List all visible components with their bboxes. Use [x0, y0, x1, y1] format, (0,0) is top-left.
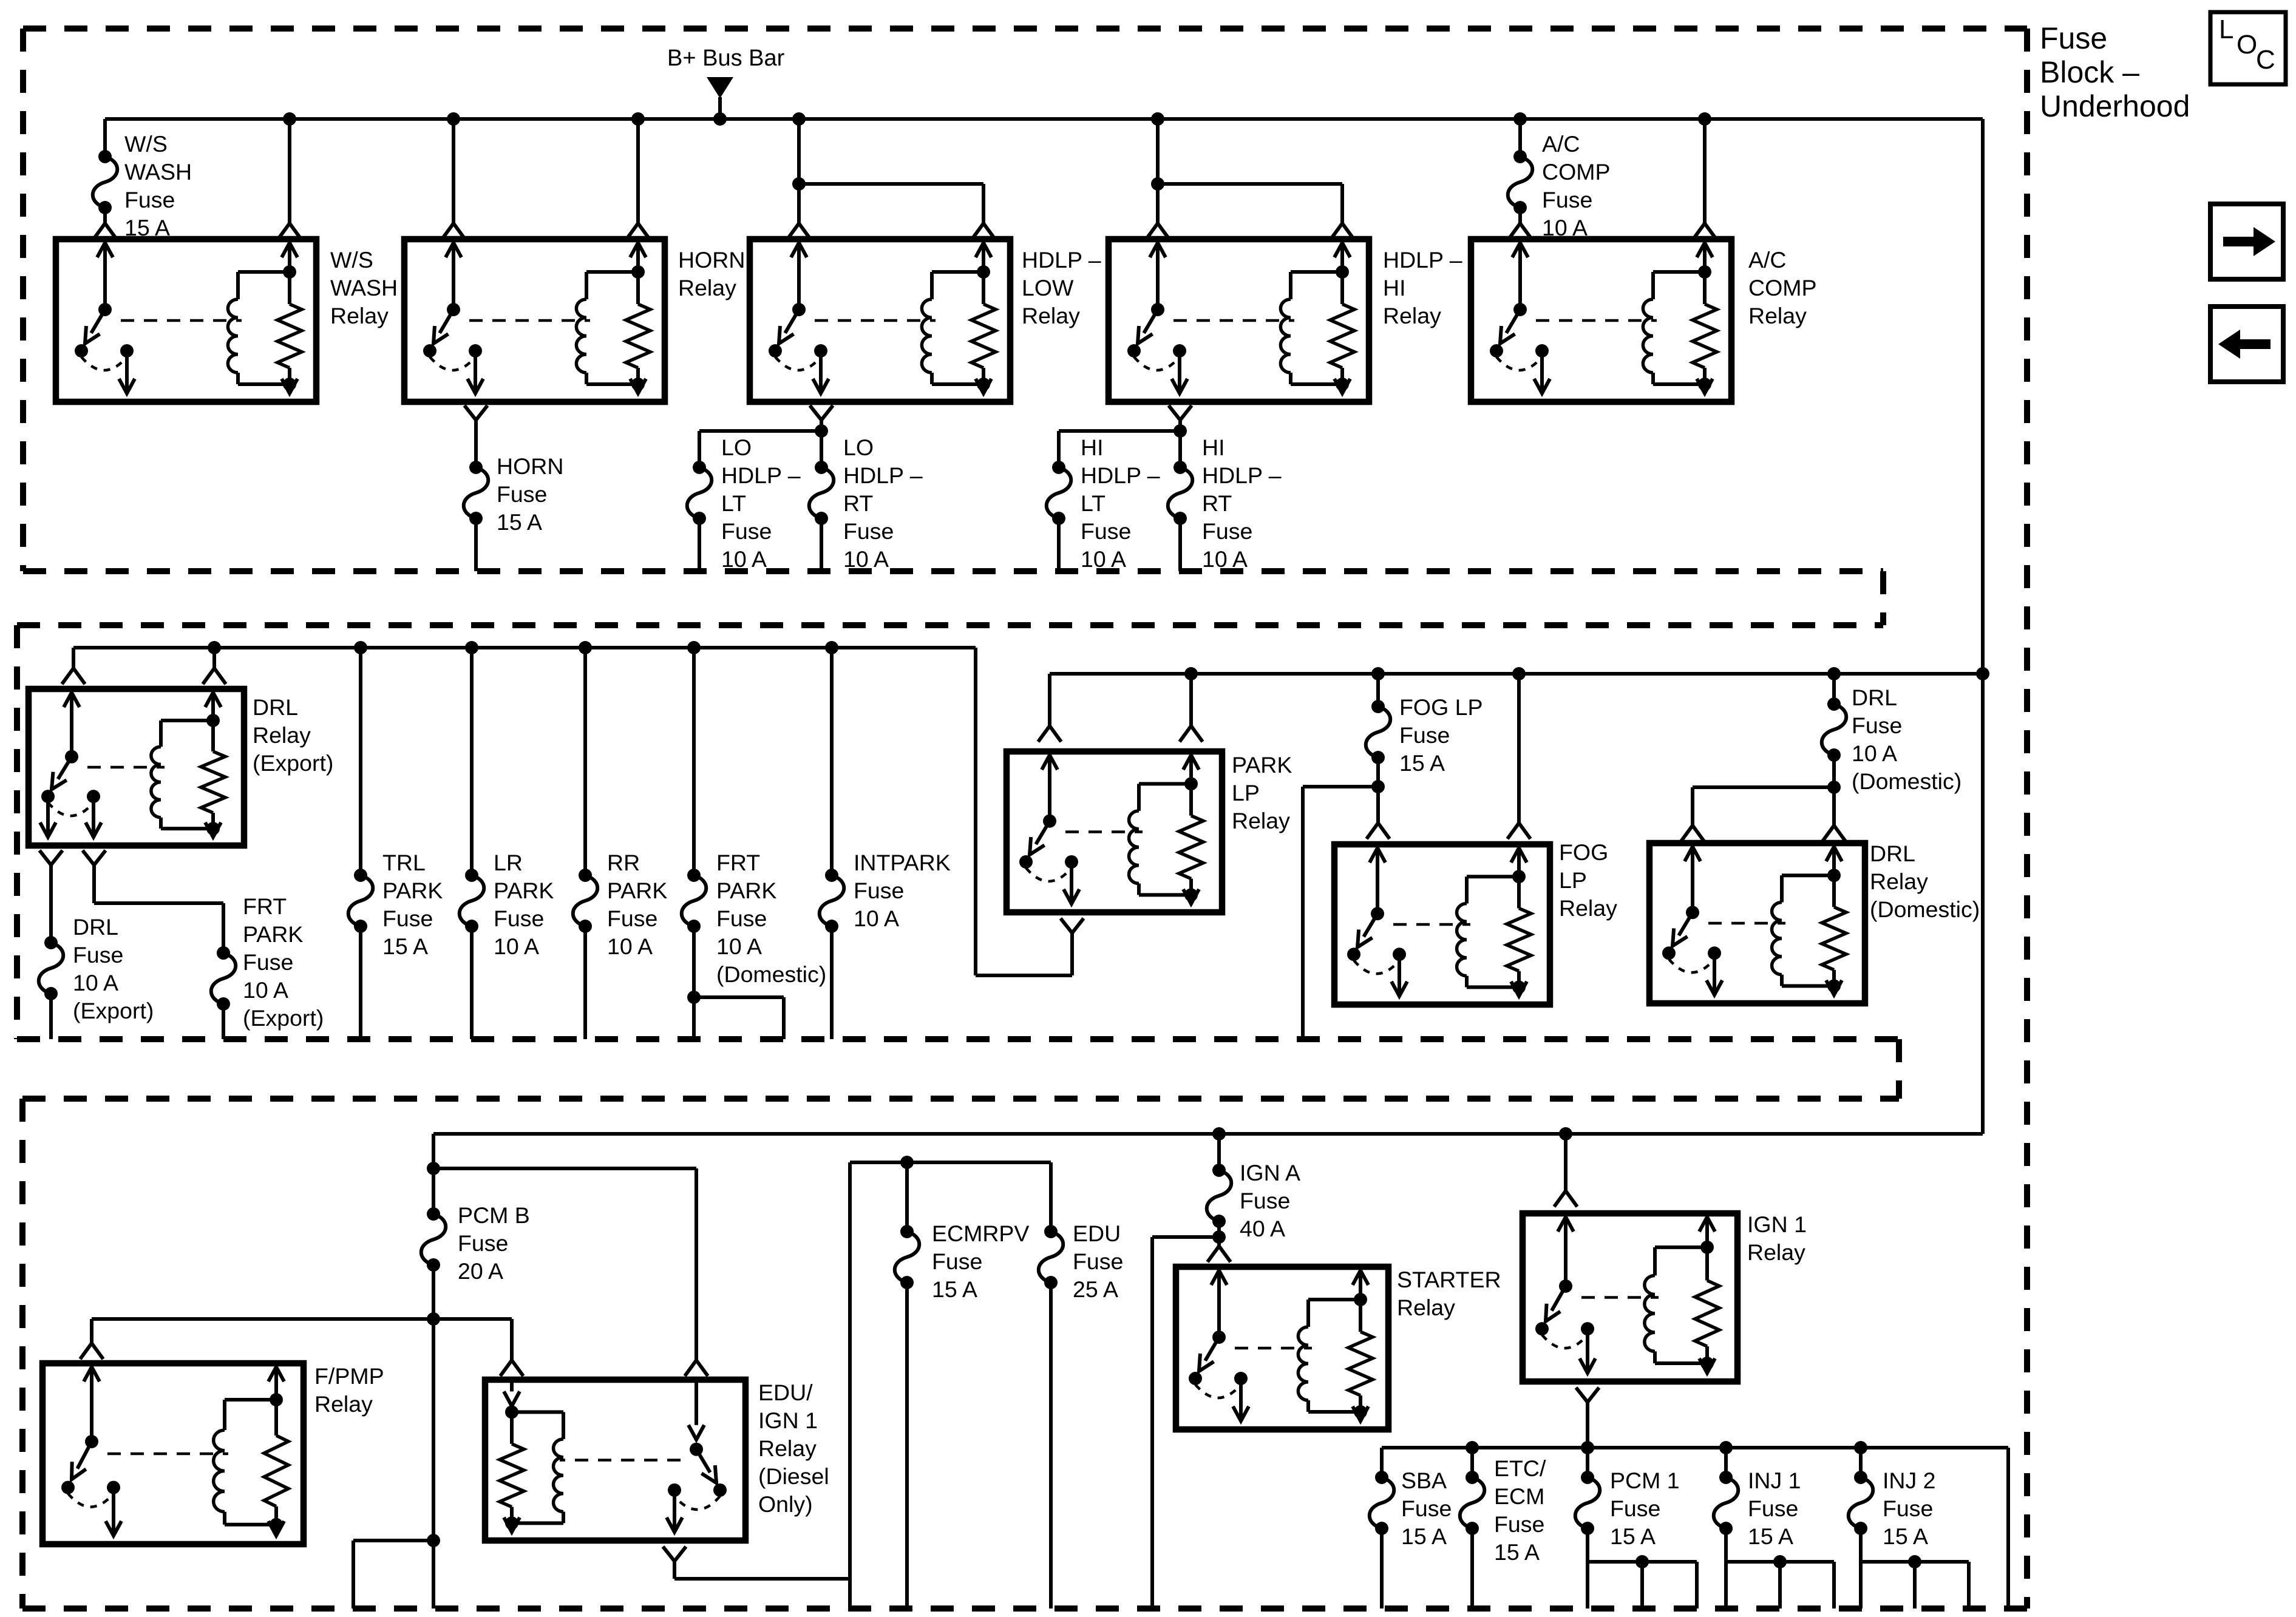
- svg-text:PARK: PARK: [607, 878, 667, 903]
- fuse HI HDLP - LT Fuse 10 A: [1047, 461, 1072, 571]
- junction dots on ignition bus: [1466, 1441, 1867, 1454]
- svg-text:DRL: DRL: [1870, 841, 1915, 866]
- wire EDU/IGN1 relay output to EDU bus: [663, 1547, 850, 1579]
- svg-text:L: L: [2219, 15, 2233, 44]
- wire PCM B continuation to bottom border: [353, 1319, 440, 1609]
- fuse ECMRPV Fuse 15 A: [895, 1162, 920, 1609]
- relay K8 FOG LP Relay: [1334, 844, 1550, 1005]
- svg-text:IGN 1: IGN 1: [758, 1408, 818, 1433]
- svg-text:10 A: 10 A: [1202, 546, 1248, 572]
- svg-text:B+ Bus Bar: B+ Bus Bar: [667, 46, 785, 71]
- wire ignition bus: [1382, 1448, 2008, 1609]
- fuse block dashed border - left edge box2: [14, 625, 20, 1039]
- relay K1 W/S WASH Relay: [56, 239, 316, 402]
- svg-text:Relay: Relay: [678, 275, 736, 300]
- B+ bus bar terminal triangle: [707, 77, 733, 98]
- wire RR PARK fuse drop: [583, 648, 587, 875]
- svg-text:15 A: 15 A: [382, 934, 428, 959]
- wire PARK LP relay output to park bus: [1061, 918, 1084, 975]
- svg-text:PARK: PARK: [1232, 752, 1292, 778]
- fuse block dashed border - left edge box1: [20, 29, 26, 571]
- svg-text:F/PMP: F/PMP: [314, 1363, 384, 1389]
- dashed separator - box1 bottom: [23, 568, 1883, 574]
- svg-text:HI: HI: [1081, 435, 1104, 460]
- wire HORN relay right pin from bus: [627, 119, 650, 239]
- fuse FRT PARK Fuse 10 A (Export): [211, 946, 236, 1039]
- fuse DRL Fuse 10 A (Export): [39, 936, 64, 1039]
- svg-text:LP: LP: [1559, 867, 1587, 893]
- wire EDU vertical riser: [850, 1156, 1051, 1609]
- svg-text:Relay: Relay: [253, 722, 311, 748]
- svg-text:Fuse: Fuse: [932, 1249, 982, 1274]
- svg-text:PARK: PARK: [494, 878, 554, 903]
- svg-text:Fuse: Fuse: [854, 878, 904, 903]
- fuse INJ 2 Fuse 15 A: [1849, 1448, 1969, 1609]
- wire HDLP-LOW relay output split to LT/RT fuses: [699, 405, 833, 467]
- svg-text:40 A: 40 A: [1240, 1216, 1285, 1241]
- svg-text:EDU: EDU: [1073, 1221, 1121, 1246]
- fuse LO HDLP - LT Fuse 10 A: [687, 461, 712, 571]
- fuse block dashed border - top edge: [23, 25, 2027, 32]
- wire B+ bus horizontal: [105, 117, 1983, 121]
- relay K3 HDLP - LOW Relay: [750, 239, 1010, 402]
- svg-text:Relay: Relay: [1397, 1295, 1455, 1320]
- svg-text:10 A: 10 A: [854, 906, 899, 931]
- wire W/S WASH relay right pin from bus: [278, 119, 301, 239]
- relay K7 PARK LP Relay: [1007, 751, 1222, 912]
- fuse LO HDLP - RT Fuse 10 A: [809, 461, 834, 571]
- svg-text:PCM 1: PCM 1: [1610, 1468, 1680, 1493]
- svg-text:Fuse: Fuse: [494, 906, 544, 931]
- svg-text:Fuse: Fuse: [843, 518, 894, 544]
- wire IGN A output jog to bottom border: [1152, 1237, 1219, 1609]
- svg-text:WASH: WASH: [124, 159, 192, 185]
- wire lamp bus (second compartment right bus): [1038, 674, 1983, 742]
- fuse FOG LP Fuse 15 A: [1366, 674, 1391, 793]
- svg-text:PARK: PARK: [382, 878, 443, 903]
- svg-text:10 A: 10 A: [243, 977, 288, 1003]
- fuse TRL PARK Fuse 15 A: [348, 869, 373, 1039]
- wire PARK LP relay right pin from lamp bus: [1180, 674, 1203, 742]
- svg-text:DRL: DRL: [253, 694, 298, 720]
- wire HORN relay output to HORN fuse: [464, 405, 487, 467]
- relay K12 STARTER Relay: [1176, 1267, 1388, 1429]
- svg-text:(Diesel: (Diesel: [758, 1463, 829, 1489]
- svg-text:PARK: PARK: [716, 878, 776, 903]
- svg-text:15 A: 15 A: [1494, 1539, 1540, 1565]
- svg-text:Fuse: Fuse: [1202, 518, 1252, 544]
- svg-text:(Domestic): (Domestic): [716, 961, 826, 987]
- svg-text:HDLP –: HDLP –: [1022, 247, 1101, 273]
- svg-text:HDLP –: HDLP –: [1202, 463, 1282, 488]
- svg-text:A/C: A/C: [1542, 131, 1580, 157]
- svg-text:DRL: DRL: [73, 914, 118, 940]
- svg-text:INJ 2: INJ 2: [1883, 1468, 1936, 1493]
- fuse FRT PARK Fuse 10 A (Domestic): [682, 869, 784, 1039]
- svg-text:10 A: 10 A: [494, 934, 539, 959]
- svg-text:Block –: Block –: [2040, 55, 2139, 89]
- svg-text:O: O: [2237, 30, 2257, 59]
- dashed separator - box3 top: [22, 1096, 1899, 1102]
- wire DRL Relay Export right output to FRT PARK fuse (Export): [83, 850, 223, 953]
- svg-text:HDLP –: HDLP –: [1383, 247, 1462, 273]
- svg-text:Relay: Relay: [1870, 869, 1928, 894]
- svg-text:EDU/: EDU/: [758, 1380, 813, 1405]
- svg-text:Fuse: Fuse: [1240, 1188, 1290, 1213]
- svg-text:10 A: 10 A: [73, 970, 118, 995]
- svg-text:PCM B: PCM B: [458, 1202, 530, 1228]
- dashed connector box1/box2 right: [1880, 571, 1886, 625]
- svg-text:Relay: Relay: [1559, 895, 1617, 921]
- relay K6 DRL Relay (Export): [29, 689, 244, 846]
- svg-text:A/C: A/C: [1748, 247, 1787, 273]
- svg-text:PARK: PARK: [243, 921, 303, 947]
- svg-text:(Domestic): (Domestic): [1852, 768, 1961, 794]
- svg-text:15 A: 15 A: [932, 1276, 977, 1302]
- svg-text:Relay: Relay: [1232, 808, 1290, 833]
- fuse SBA Fuse 15 A: [1370, 1471, 1394, 1609]
- svg-text:Fuse: Fuse: [1081, 518, 1131, 544]
- svg-text:Fuse: Fuse: [382, 906, 433, 931]
- svg-text:FRT: FRT: [243, 893, 287, 919]
- svg-text:W/S: W/S: [330, 247, 373, 273]
- svg-text:TRL: TRL: [382, 850, 426, 875]
- svg-text:COMP: COMP: [1748, 275, 1817, 300]
- wire HORN relay left pin from bus: [442, 119, 465, 239]
- fuse HORN Fuse 15 A: [464, 461, 489, 571]
- wire DRL relay (Export) right pin from park bus: [203, 648, 226, 684]
- svg-text:RR: RR: [607, 850, 640, 875]
- svg-text:Fuse: Fuse: [1610, 1496, 1660, 1521]
- svg-text:Fuse: Fuse: [721, 518, 772, 544]
- svg-text:IGN 1: IGN 1: [1747, 1212, 1807, 1237]
- wire IGN A to STARTER relay: [1207, 1237, 1231, 1262]
- wire park bus (second compartment left bus): [62, 648, 1072, 975]
- svg-text:INJ 1: INJ 1: [1748, 1468, 1801, 1493]
- svg-text:Underhood: Underhood: [2040, 89, 2190, 123]
- svg-text:LT: LT: [721, 490, 746, 516]
- svg-text:Relay: Relay: [1747, 1239, 1805, 1265]
- wire HDLP-LOW feed from bus with tee: [787, 119, 995, 239]
- svg-text:FRT: FRT: [716, 850, 760, 875]
- svg-text:LT: LT: [1081, 490, 1106, 516]
- junction dots on lamp bus: [1184, 667, 1989, 680]
- svg-text:HI: HI: [1202, 435, 1225, 460]
- wire DRL fuse output to DRL relay (Domestic) pins: [1681, 787, 1846, 841]
- left-arrow navigation box: [2210, 307, 2283, 382]
- dashed separator - box2 bottom: [17, 1036, 1899, 1042]
- fuse LR PARK Fuse 10 A: [460, 869, 484, 1039]
- svg-text:Fuse: Fuse: [1494, 1511, 1544, 1537]
- junction dots on B+ bus: [283, 112, 1711, 126]
- wire IGN 1 relay feed from H1: [1554, 1134, 1577, 1207]
- svg-text:HDLP –: HDLP –: [721, 463, 801, 488]
- svg-text:Relay: Relay: [758, 1436, 817, 1461]
- svg-text:10 A: 10 A: [1081, 546, 1126, 572]
- fuse W/S WASH Fuse 15 A: [93, 119, 118, 239]
- wire DRL Relay Export left output to DRL fuse (Export): [39, 850, 63, 943]
- dashed connector box2/box3 right: [1896, 1039, 1902, 1099]
- fuse RR PARK Fuse 10 A: [573, 869, 598, 1039]
- svg-text:10 A: 10 A: [716, 934, 762, 959]
- svg-text:Relay: Relay: [1748, 303, 1807, 328]
- svg-text:Relay: Relay: [1383, 303, 1441, 328]
- wire HDLP-HI relay output split to LT/RT fuses: [1059, 405, 1192, 467]
- svg-text:10 A: 10 A: [721, 546, 767, 572]
- svg-text:15 A: 15 A: [1401, 1524, 1447, 1549]
- wire A/C COMP relay right pin from bus: [1693, 119, 1716, 239]
- fuse HI HDLP - RT Fuse 10 A: [1168, 461, 1193, 571]
- svg-text:STARTER: STARTER: [1397, 1267, 1501, 1292]
- svg-text:(Domestic): (Domestic): [1870, 897, 1980, 922]
- svg-text:ETC/: ETC/: [1494, 1456, 1546, 1481]
- wire right feeder from B+ bus down to second bus and H1: [1981, 119, 1985, 1134]
- wire TRL PARK fuse drop: [359, 648, 362, 875]
- svg-text:WASH: WASH: [330, 275, 398, 300]
- svg-text:RT: RT: [843, 490, 873, 516]
- relay K11 EDU/IGN 1 Relay (Diesel Only): [485, 1380, 746, 1541]
- relay K13 IGN 1 Relay: [1523, 1213, 1737, 1381]
- fuse IGN A Fuse 40 A: [1207, 1134, 1232, 1244]
- wire HDLP-HI feed from bus with tee: [1146, 119, 1354, 239]
- fuse EDU Fuse 25 A: [1039, 1162, 1064, 1609]
- wire FOG LP relay right pin from lamp bus: [1507, 674, 1530, 839]
- fuse ETC/ECM Fuse 15 A: [1460, 1448, 1485, 1609]
- svg-text:FOG: FOG: [1559, 839, 1608, 865]
- svg-text:(Export): (Export): [243, 1005, 324, 1031]
- svg-text:Fuse: Fuse: [607, 906, 657, 931]
- wire IGN 1 relay output to ignition bus: [1576, 1388, 1599, 1448]
- wire FOG LP fuse output to border and FOG LP relay: [1303, 787, 1390, 1039]
- junction dots on H1: [1212, 1127, 1572, 1141]
- svg-text:HORN: HORN: [678, 247, 745, 273]
- svg-text:Fuse: Fuse: [1748, 1496, 1798, 1521]
- junction dots on park bus: [208, 641, 838, 654]
- svg-text:INTPARK: INTPARK: [854, 850, 951, 875]
- relay K5 A/C COMP Relay: [1471, 239, 1731, 402]
- fuse INJ 1 Fuse 15 A: [1714, 1448, 1834, 1609]
- wire EDU/IGN1 relay switch feed: [433, 1168, 708, 1376]
- svg-text:15 A: 15 A: [1610, 1524, 1656, 1549]
- svg-text:(Export): (Export): [73, 998, 154, 1023]
- relay K2 HORN Relay: [404, 239, 665, 402]
- wire LR PARK fuse drop: [470, 648, 474, 875]
- svg-text:C: C: [2256, 45, 2275, 75]
- svg-text:HI: HI: [1383, 275, 1406, 300]
- svg-text:15 A: 15 A: [1399, 750, 1445, 776]
- svg-text:Relay: Relay: [1022, 303, 1080, 328]
- svg-text:15 A: 15 A: [1748, 1524, 1793, 1549]
- fuse block dashed border - right edge: [2024, 29, 2030, 1609]
- svg-text:Fuse: Fuse: [458, 1230, 508, 1256]
- svg-text:(Export): (Export): [253, 750, 333, 776]
- svg-text:Fuse: Fuse: [497, 481, 547, 507]
- svg-text:Fuse: Fuse: [1401, 1496, 1452, 1521]
- svg-text:Fuse: Fuse: [73, 942, 123, 968]
- fuse block dashed border - bottom edge: [22, 1605, 2027, 1612]
- fuse PCM B Fuse 20 A: [421, 1168, 446, 1319]
- relay K10 F/PMP Relay: [42, 1363, 304, 1544]
- right-arrow navigation box: [2210, 204, 2283, 279]
- relay K9 DRL Relay (Domestic): [1649, 843, 1865, 1003]
- svg-text:Fuse: Fuse: [1542, 187, 1592, 212]
- svg-text:Relay: Relay: [314, 1391, 373, 1417]
- svg-text:Fuse: Fuse: [1399, 722, 1450, 748]
- svg-text:COMP: COMP: [1542, 159, 1611, 185]
- svg-text:DRL: DRL: [1852, 685, 1897, 710]
- svg-text:Fuse: Fuse: [243, 949, 293, 975]
- svg-text:FOG LP: FOG LP: [1399, 694, 1483, 720]
- svg-text:Relay: Relay: [330, 303, 389, 328]
- dashed separator - box2 top: [17, 622, 1883, 628]
- wire FRT PARK (Domestic) fuse drop: [692, 648, 696, 875]
- svg-text:15 A: 15 A: [1883, 1524, 1928, 1549]
- fuse INTPARK Fuse 10 A: [820, 869, 844, 1039]
- fuse DRL Fuse 10 A (Domestic): [1822, 674, 1847, 794]
- svg-text:HDLP –: HDLP –: [843, 463, 923, 488]
- svg-text:Fuse: Fuse: [2040, 21, 2107, 55]
- svg-text:LR: LR: [494, 850, 523, 875]
- svg-text:LOW: LOW: [1022, 275, 1074, 300]
- svg-text:Fuse: Fuse: [124, 187, 175, 212]
- svg-text:ECMRPV: ECMRPV: [932, 1221, 1029, 1246]
- svg-text:ECM: ECM: [1494, 1483, 1544, 1509]
- svg-text:10 A: 10 A: [1852, 741, 1897, 766]
- svg-text:LO: LO: [843, 435, 874, 460]
- svg-text:10 A: 10 A: [607, 934, 653, 959]
- svg-text:RT: RT: [1202, 490, 1232, 516]
- fuse PCM 1 Fuse 15 A: [1575, 1448, 1697, 1609]
- LOC reference box: [2210, 12, 2286, 84]
- svg-text:Only): Only): [758, 1491, 813, 1517]
- svg-text:SBA: SBA: [1401, 1468, 1447, 1493]
- svg-text:20 A: 20 A: [458, 1258, 503, 1284]
- fuse block dashed border - left edge box3: [19, 1099, 25, 1609]
- svg-text:W/S: W/S: [124, 131, 168, 157]
- wire H1 feeder from right vertical to PCM B branch: [427, 1134, 1983, 1175]
- wire PCM B fuse output tee to F/PMP relay and EDU/IGN1 relay: [80, 1312, 523, 1376]
- svg-text:25 A: 25 A: [1073, 1276, 1118, 1302]
- svg-text:HDLP –: HDLP –: [1081, 463, 1160, 488]
- svg-text:10 A: 10 A: [843, 546, 889, 572]
- svg-text:Fuse: Fuse: [716, 906, 767, 931]
- svg-text:Fuse: Fuse: [1073, 1249, 1123, 1274]
- svg-text:LO: LO: [721, 435, 752, 460]
- svg-text:Fuse: Fuse: [1852, 713, 1902, 738]
- svg-text:Fuse: Fuse: [1883, 1496, 1933, 1521]
- svg-text:IGN A: IGN A: [1240, 1160, 1300, 1185]
- svg-text:HORN: HORN: [497, 453, 563, 479]
- wire INTPARK fuse drop: [830, 648, 834, 875]
- relay K4 HDLP - HI Relay: [1109, 239, 1369, 402]
- svg-text:LP: LP: [1232, 780, 1260, 805]
- fuse A/C COMP Fuse 10 A: [1508, 119, 1533, 239]
- svg-text:15 A: 15 A: [497, 509, 542, 535]
